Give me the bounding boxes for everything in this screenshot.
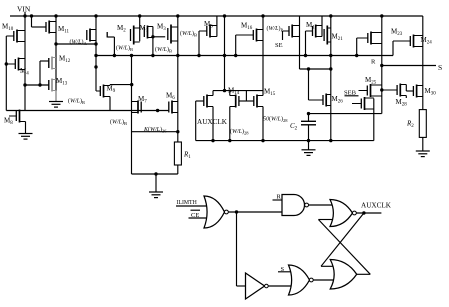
label M4 [20, 67, 29, 77]
label M15 [264, 88, 276, 98]
node rail junctions [23, 14, 383, 17]
label M28 [396, 98, 408, 108]
svg-text:AUXCLK: AUXCLK [197, 118, 228, 126]
label M24 [421, 36, 433, 46]
wire M5 gate drop [198, 31, 200, 56]
wire M10/M4 body column [24, 16, 26, 111]
label M30 [425, 87, 437, 97]
net label S output [438, 63, 442, 72]
capacitor C2 [301, 114, 316, 141]
label M11 [58, 25, 70, 35]
transistor M2a [87, 29, 96, 42]
transistor M27 [352, 97, 374, 110]
wire M14-M15 gate tie [239, 91, 254, 101]
label M6 [166, 92, 175, 102]
wire M9 gate vertical [94, 16, 97, 91]
label M23 [391, 28, 403, 38]
svg-text:R: R [371, 59, 376, 66]
transistor M17 [306, 25, 323, 38]
wire S input [278, 271, 291, 273]
net label 50(W/L)28 [263, 116, 288, 124]
transistor M28 [382, 84, 407, 97]
svg-text:AUXCLK: AUXCLK [361, 202, 392, 210]
node M28 gate junction [380, 88, 383, 91]
wire latch cross 2 [318, 220, 370, 275]
label M25 [365, 76, 377, 86]
transistor M15 [254, 95, 263, 108]
wire node A to M9 gate net [56, 43, 96, 45]
resistor R2 [419, 110, 426, 138]
ground under M8 [19, 134, 33, 140]
wire NOR3 output [313, 279, 334, 281]
gate NOR3 (S) [289, 265, 314, 295]
transistor M9 [96, 85, 110, 98]
node bottom bus junctions [211, 139, 310, 142]
wire ILIMTH input [176, 205, 207, 207]
net label (W/L)B left [116, 45, 133, 53]
net label (W/L)B right of M3 [180, 30, 197, 38]
wire M28 body / M30 gate [406, 85, 413, 99]
transistor M14a [204, 95, 213, 108]
transistor M13 [49, 79, 56, 92]
wire M1 body [151, 27, 154, 58]
wire NOR1 output [228, 210, 282, 213]
wire left gate net vertical [5, 36, 7, 111]
wire M12 gate feedback [40, 61, 49, 85]
gate OR4 latch bottom [330, 260, 357, 290]
gate inverter [246, 273, 269, 299]
wire M22/M25 body column [381, 16, 383, 114]
node M4 gate junction [5, 62, 8, 65]
transistor M3 [168, 25, 178, 44]
transistor M21 [324, 26, 331, 45]
svg-text:VIN: VIN [17, 5, 31, 14]
wire M17 gate drop [305, 31, 307, 56]
wire AUXCLK gate net [196, 101, 204, 141]
net label VIN [17, 5, 31, 17]
wire latch cross 1 [321, 213, 364, 266]
transistor M4 [6, 58, 25, 71]
label M26 [332, 95, 344, 105]
transistor M1 [144, 26, 153, 39]
net label AUXCLK output [361, 202, 392, 210]
wire M9 drain link [110, 84, 132, 87]
wire M22 gate drop [356, 38, 358, 56]
label M5 [204, 20, 213, 30]
net label (W/L)R [68, 98, 85, 106]
net label ILIMTH [177, 200, 198, 206]
wire M8 source [25, 122, 27, 134]
wire M11 gate drop [32, 16, 46, 27]
net label (W/L)B mid [155, 46, 172, 54]
node bus2 junction [156, 109, 159, 112]
transistor M8 [9, 110, 26, 123]
transistor M7 [132, 101, 142, 114]
net label (W/L)A [70, 39, 88, 47]
wire K tap [132, 131, 178, 133]
wire tie to mid bus [223, 14, 226, 90]
wire M17 body [321, 16, 323, 37]
wire NAND1 output [309, 204, 333, 206]
wire M16/M15 body column [262, 16, 264, 141]
wire right body column [422, 16, 424, 110]
net label (W/L)28 [230, 128, 249, 136]
wire M27 body [373, 99, 375, 141]
wire drain tie bus [213, 89, 263, 92]
label M10 [2, 23, 14, 33]
net label CE [191, 210, 201, 219]
gate NOR2 latch top [330, 200, 356, 227]
wire y69 link [300, 68, 332, 70]
wire M3 gate net [153, 36, 165, 38]
net label S input [281, 266, 285, 273]
node R [371, 59, 383, 68]
transistor M30 [413, 85, 422, 98]
wire M13 gate net [23, 83, 49, 86]
svg-text:SE: SE [275, 42, 283, 49]
transistor M20 [283, 25, 300, 38]
wire NOR1 to inverter [237, 212, 246, 286]
net label AUXCLK [197, 118, 228, 126]
bus lower-left horizontal [6, 110, 168, 112]
label M8 [4, 117, 13, 127]
net label (W/L)P [267, 25, 284, 33]
gate NAND1 [282, 195, 309, 216]
ground under bottom bus [302, 141, 316, 156]
label M3 [157, 23, 166, 33]
ground under R1 rail [149, 174, 163, 198]
wire OR4 output [357, 273, 371, 275]
bus mid horizontal [96, 55, 393, 57]
transistor M5 [199, 25, 217, 38]
wire node R to S [382, 65, 436, 67]
transistor M2 [131, 26, 140, 45]
transistor M12 [49, 57, 56, 70]
wire M16 gate drop [235, 35, 237, 56]
node bus junctions left [130, 54, 134, 87]
label M1 [140, 24, 149, 34]
wire M26 gate vertical [307, 67, 310, 100]
label M14 [228, 87, 240, 97]
wire M20 body [299, 16, 301, 69]
wire M5 body [216, 16, 218, 37]
label M2 [117, 24, 126, 34]
label M12 [59, 55, 71, 65]
node A tap [54, 42, 57, 45]
wire M9 source [109, 97, 111, 111]
gate NOR1 (ILIMTH,CE) [204, 196, 228, 228]
wire bottom bus [196, 140, 374, 142]
label C2 [290, 122, 298, 132]
net label R input [277, 194, 282, 201]
transistor M22 [357, 32, 382, 45]
wire bottom left rail [132, 172, 178, 175]
net label SE [275, 31, 283, 49]
label M16 [241, 22, 253, 32]
transistor M11 [46, 21, 56, 34]
net label SEB [344, 90, 359, 97]
transistor M10 [6, 30, 25, 43]
wire M3/M6/R1 body column [177, 16, 179, 142]
transistor M26 [309, 94, 331, 107]
ground under M13 [49, 91, 63, 108]
wire M2 gate tap [107, 32, 116, 57]
svg-text:S: S [438, 63, 442, 72]
wire M11/M12 body column [55, 16, 57, 102]
wire M7 body upper [131, 56, 133, 175]
net label (W/L)B lower [110, 119, 127, 127]
label M21 [332, 33, 344, 43]
label R1 [183, 151, 191, 161]
transistor M16 [236, 29, 263, 42]
label M7 [138, 95, 147, 105]
wire M14a body [212, 91, 214, 141]
node column junctions [176, 54, 179, 134]
wire VIN top rail [10, 15, 423, 17]
label M17 [306, 21, 318, 31]
wire M2 body [139, 16, 141, 41]
label M13 [56, 77, 68, 87]
label R2 [406, 120, 414, 130]
wire R input [273, 199, 283, 201]
wire M24 gate drop [392, 41, 394, 56]
wire M21/M26 body column [329, 16, 332, 142]
ground under R2 [416, 151, 430, 157]
wire CE input [189, 217, 207, 219]
wire C2 node horizontal [307, 112, 382, 115]
transistor M25 [359, 84, 382, 97]
node bus junctions [94, 54, 358, 57]
resistor R1 [174, 142, 181, 174]
svg-text:ILIMTH: ILIMTH [177, 200, 198, 206]
transistor M6 [169, 101, 178, 114]
label M9 [107, 85, 116, 95]
wire NOR2 output AUXCLK [356, 211, 381, 214]
transistor M14 [230, 95, 239, 108]
transistor M24 [393, 35, 423, 48]
wire inverter to NOR3 [268, 285, 291, 287]
wire M14 body [229, 91, 231, 141]
net label K(W/L)26 [143, 126, 167, 134]
wire R2 to ground [422, 137, 424, 151]
